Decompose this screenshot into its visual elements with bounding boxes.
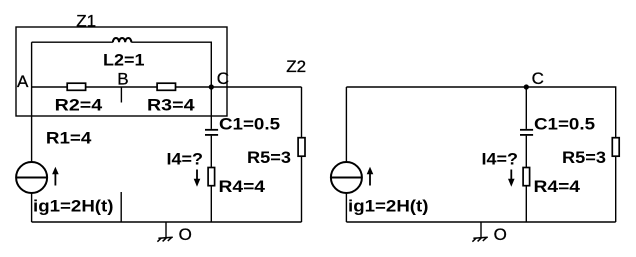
svg-text:R3=4: R3=4 (147, 95, 195, 114)
svg-text:L2=1: L2=1 (103, 51, 145, 70)
svg-text:A: A (17, 72, 29, 91)
svg-text:I4=?: I4=? (482, 150, 519, 169)
svg-text:Z2: Z2 (286, 57, 306, 76)
svg-text:R4=4: R4=4 (534, 177, 581, 196)
svg-text:R2=4: R2=4 (55, 95, 103, 114)
svg-text:C: C (532, 69, 544, 88)
svg-text:B: B (117, 69, 128, 88)
svg-text:C: C (217, 69, 229, 88)
svg-text:R1=4: R1=4 (46, 129, 92, 148)
svg-text:R5=3: R5=3 (562, 148, 606, 167)
svg-text:ig1=2H(t): ig1=2H(t) (33, 197, 114, 216)
svg-text:C1=0.5: C1=0.5 (534, 114, 595, 133)
svg-text:I4=?: I4=? (167, 150, 204, 169)
svg-text:C1=0.5: C1=0.5 (219, 114, 280, 133)
svg-text:O: O (494, 225, 507, 244)
svg-text:R5=3: R5=3 (247, 148, 291, 167)
svg-text:Z1: Z1 (76, 11, 96, 30)
svg-text:O: O (179, 225, 192, 244)
svg-text:ig1=2H(t): ig1=2H(t) (348, 197, 429, 216)
svg-text:R4=4: R4=4 (219, 177, 266, 196)
